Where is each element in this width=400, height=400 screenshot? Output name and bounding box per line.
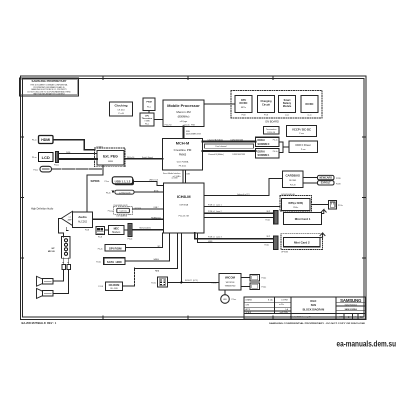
svg-text:ICH BGA: ICH BGA — [179, 204, 188, 207]
wire PWM to thermistor — [148, 110, 150, 113]
svg-text:uClocks FSB: uClocks FSB — [183, 125, 195, 127]
svg-text:Audio: Audio — [78, 215, 87, 219]
LVDS connector bar — [54, 152, 59, 167]
svg-text:Ext. PEG: Ext. PEG — [103, 155, 118, 159]
CD-ROM — [98, 282, 122, 291]
svg-text:Thermistor: Thermistor — [142, 117, 153, 120]
EC aux connector 1 — [250, 274, 266, 281]
svg-text:ɰ Bluetooth: ɰ Bluetooth — [119, 191, 131, 194]
svg-text:Mini Card 2: Mini Card 2 — [294, 241, 310, 245]
svg-text:SIO/LPC (LPC): SIO/LPC (LPC) — [185, 280, 198, 282]
cardbus controller — [283, 171, 304, 187]
svg-text:Modem: Modem — [112, 231, 120, 234]
svg-text:P2-4x: P2-4x — [262, 278, 267, 280]
svg-text:x4 1GB: x4 1GB — [172, 177, 179, 179]
svg-text:ELECTRONICS: ELECTRONICS — [345, 304, 358, 306]
svg-text:S/PDIF.: S/PDIF. — [91, 179, 101, 183]
svg-text:Dual channel: Dual channel — [215, 146, 227, 148]
svg-text:SAMSUNG: SAMSUNG — [340, 298, 362, 303]
audio codec ALC262 — [73, 212, 93, 232]
DDR channel A bus — [203, 141, 256, 143]
wires ICH to minicard2 — [195, 233, 274, 239]
svg-text:Merom 4M: Merom 4M — [176, 110, 191, 114]
power section dashed box — [231, 91, 322, 119]
svg-text:xxxF-D/Nx: xxxF-D/Nx — [280, 312, 288, 314]
wire WICOM to LED — [224, 290, 226, 295]
MDC connector icon — [96, 227, 105, 239]
svg-text:P3-xx: P3-xx — [33, 170, 38, 172]
svg-text:PAGE: PAGE — [340, 316, 346, 319]
wire modem to RJ11 — [124, 229, 128, 231]
svg-text:DDR2 667/533: DDR2 667/533 — [233, 154, 246, 156]
minicard1 edge connector — [274, 211, 278, 225]
camera module — [108, 208, 130, 217]
wire USB to ICH — [134, 182, 164, 186]
svg-text:DILO: DILO — [310, 300, 316, 303]
svg-text:Switch Signal: Switch Signal — [142, 156, 153, 159]
PWM sensor — [143, 98, 155, 110]
svg-text:DDR-II: DDR-II — [258, 139, 266, 142]
svg-text:DDR2 667/533: DDR2 667/533 — [231, 140, 244, 142]
wire SPI ROM to ICH — [126, 233, 163, 248]
wire LAN to RJ45 — [312, 204, 329, 206]
audio amplifier — [61, 211, 72, 225]
svg-text:CD-ROM: CD-ROM — [109, 283, 120, 287]
DDR II power — [289, 141, 318, 153]
svg-text:P4-x: P4-x — [145, 123, 149, 125]
wire SODIMM to DDR II power — [279, 142, 289, 152]
svg-text:OD- DVD: OD- DVD — [110, 288, 119, 290]
svg-text:DDR II Power: DDR II Power — [296, 144, 311, 147]
svg-text:ALC262: ALC262 — [78, 221, 88, 224]
svg-text:Module: Module — [283, 105, 292, 108]
RJ11 connector bar — [128, 224, 133, 241]
svg-text:PCIE x1 Lane 1: PCIE x1 Lane 1 — [208, 204, 222, 206]
svg-text:P2-4x: P2-4x — [128, 238, 133, 240]
wire Ext PEG spdif to audio — [87, 165, 103, 212]
wire LVDS bus dashed — [59, 158, 97, 160]
SPI ROM — [98, 245, 126, 252]
svg-text:LVTMDS: LVTMDS — [96, 146, 104, 148]
svg-text:x.x: x.x — [68, 217, 70, 219]
svg-text:P4-1x: P4-1x — [273, 140, 278, 142]
wire audio HDA to ICH — [93, 218, 164, 220]
CPU DC/DC regulator — [235, 96, 252, 117]
svg-text:BT/SL: BT/SL — [154, 190, 159, 192]
newcard slot 1 — [318, 175, 342, 179]
svg-text:P3-xx: P3-xx — [32, 157, 37, 159]
svg-text:Circuit: Circuit — [262, 103, 270, 106]
svg-text:BA-20D MUTIBLE.D REV : 1: BA-20D MUTIBLE.D REV : 1 — [22, 321, 57, 325]
svg-text:SODIMM 1: SODIMM 1 — [258, 154, 270, 157]
svg-text:NEWCARD: NEWCARD — [319, 177, 332, 180]
wire ICH to minicard1 pcie — [204, 212, 274, 214]
svg-text:SAM KOREA: SAM KOREA — [345, 308, 358, 311]
svg-text:P4-x: P4-x — [147, 107, 151, 109]
svg-text:SPI ROM: SPI ROM — [109, 246, 122, 250]
svg-text:ICH8-M: ICH8-M — [177, 194, 191, 199]
svg-text:P21-B: P21-B — [290, 184, 296, 186]
proprietary notice box — [20, 78, 79, 96]
mini card 1 — [284, 212, 322, 224]
samsung logo — [340, 298, 364, 319]
svg-text:Crestline PM: Crestline PM — [174, 148, 192, 152]
svg-text:MIC-IN: MIC-IN — [48, 251, 55, 253]
wire CRT dashed — [52, 168, 103, 170]
wire HDMI to Ext PEG — [53, 140, 95, 150]
svg-text:1/3 PMT: 1/3 PMT — [281, 300, 289, 302]
svg-text:Channel A (64bits): Channel A (64bits) — [208, 139, 224, 142]
svg-text:P2-4x: P2-4x — [265, 245, 270, 247]
svg-text:P2-4x: P2-4x — [96, 262, 101, 264]
LED indicator — [221, 295, 236, 304]
termination network — [264, 127, 280, 135]
wire Ext PEG to MCH — [124, 158, 163, 160]
LAN dashed box — [280, 196, 312, 212]
svg-text:PCIE x1 Lane 2: PCIE x1 Lane 2 — [208, 211, 222, 213]
svg-text:SAMSUNG PROPRIETARY: SAMSUNG PROPRIETARY — [32, 79, 67, 83]
svg-text:PCIE x1 Lane 3: PCIE x1 Lane 3 — [208, 237, 222, 239]
wire SATA to ICH — [125, 233, 170, 261]
wire speaker right — [53, 270, 69, 294]
svg-text:MCH-M: MCH-M — [176, 141, 189, 146]
svg-text:SODIMM 0: SODIMM 0 — [258, 143, 270, 146]
svg-text:P x-B: P x-B — [118, 113, 124, 115]
svg-text:Channel B (64bits): Channel B (64bits) — [208, 153, 224, 156]
svg-text:(800MHz): (800MHz) — [178, 115, 190, 119]
svg-text:USB 7: USB 7 — [154, 207, 159, 209]
HDMI connector — [32, 136, 53, 144]
CRT VGA connector — [33, 166, 51, 172]
svg-text:Direct Media Interface: Direct Media Interface — [163, 172, 181, 175]
svg-text:PEG x16: PEG x16 — [127, 157, 134, 159]
svg-text:P2-5x: P2-5x — [151, 282, 156, 284]
wires WICOM to aux connectors — [241, 278, 250, 287]
svg-text:P4-1x: P4-1x — [273, 151, 278, 153]
svg-text:ea-manuals.dem.su: ea-manuals.dem.su — [337, 339, 397, 349]
svg-text:Clocking: Clocking — [114, 104, 127, 108]
wire speaker left — [53, 270, 64, 282]
wire CPU to CPU DC/DC — [204, 103, 235, 105]
wire bluetooth to ICH — [134, 191, 163, 193]
svg-text:400/533MHz BTX: 400/533MHz BTX — [186, 134, 202, 136]
title block small texts — [246, 298, 289, 314]
svg-text:SAMSUNG CONFIDENTIAL PROPRIETA: SAMSUNG CONFIDENTIAL PROPRIETARY - DO NO… — [269, 322, 366, 325]
newcard slot 2 — [318, 181, 342, 186]
frame zone ticks left — [20, 137, 23, 258]
bluetooth module — [106, 190, 134, 194]
svg-text:P-2-B: P-2-B — [98, 286, 103, 288]
border frame outer — [20, 76, 366, 319]
wire CD-ROM PATA to ICH — [123, 268, 135, 286]
svg-text:WICOM: WICOM — [225, 276, 236, 280]
wire camera to ICH — [133, 208, 164, 210]
title block — [244, 297, 366, 319]
svg-text:LED: LED — [223, 299, 227, 301]
svg-text:Mobile Processor: Mobile Processor — [167, 103, 200, 108]
svg-text:Camera: Camera — [119, 210, 127, 213]
CPU thermistor — [140, 113, 154, 126]
DDR-II SODIMM 0 connector — [256, 137, 280, 146]
svg-text:SATA 0: SATA 0 — [154, 258, 160, 261]
svg-text:P9,10,11: P9,10,11 — [179, 166, 186, 168]
audio jack strip — [62, 237, 71, 259]
camera dashed option box — [114, 206, 133, 214]
svg-text:DMI: DMI — [187, 174, 191, 176]
svg-text:APPD: APPD — [246, 308, 251, 311]
svg-text:BLOCK DIAGRAM: BLOCK DIAGRAM — [303, 309, 325, 312]
svg-text:xx: xx — [67, 262, 69, 264]
USB ports block — [112, 177, 134, 186]
svg-text:P8-4x: P8-4x — [293, 207, 298, 209]
LAN controller — [282, 199, 311, 211]
svg-text:P xxx: P xxx — [299, 133, 304, 135]
svg-text:OPTION: OPTION — [281, 252, 289, 254]
svg-text:DDR-II: DDR-II — [258, 150, 266, 153]
southbridge U2 ICH8-M — [164, 183, 205, 233]
svg-text:P4,14,16: P4,14,16 — [267, 132, 275, 134]
FSB bus CPU to MCH — [183, 127, 185, 139]
svg-text:DC/DC: DC/DC — [240, 102, 248, 105]
CPU U0 Mobile Processor — [163, 100, 204, 127]
svg-text:xx: xx — [62, 262, 64, 264]
svg-text:SCALE: SCALE — [246, 311, 252, 314]
svg-text:LCD: LCD — [42, 155, 50, 160]
svg-text:Termination: Termination — [266, 128, 276, 131]
wires cardbus to newcard — [303, 178, 318, 183]
svg-text:High Definition Audio: High Definition Audio — [31, 207, 54, 210]
wire MDC to ICH — [132, 229, 164, 231]
svg-text:Galaxy 4 in PCI: Galaxy 4 in PCI — [237, 194, 250, 196]
svg-text:SGN: SGN — [311, 304, 317, 307]
clocking U-CLK — [110, 102, 133, 116]
svg-text:EXP/SLT: EXP/SLT — [321, 182, 331, 185]
coupling capacitors — [62, 258, 70, 270]
smart battery module — [279, 96, 296, 117]
svg-text:P3 xx: P3 xx — [105, 181, 110, 183]
svg-text:P2-x ▶: P2-x ▶ — [108, 209, 114, 212]
svg-text:DC/DC: DC/DC — [306, 103, 314, 106]
svg-text:PWM: PWM — [146, 102, 152, 104]
DMI bus MCH to ICH — [183, 170, 186, 183]
wire ICH to minicard1 usb — [204, 217, 274, 219]
LPC bus wire — [168, 281, 220, 283]
svg-text:SATA HDD: SATA HDD — [107, 260, 122, 264]
dual channel label box — [205, 144, 254, 148]
svg-text:PARTY AS NECESSARY BY CONTENT: PARTY AS NECESSARY BY CONTENT — [33, 93, 65, 96]
wire LVDS thin — [59, 153, 97, 155]
svg-text:xx W x: xx W x — [279, 304, 284, 306]
wire amp to jacks — [59, 218, 64, 237]
DC/DC converter — [301, 96, 318, 117]
svg-text:USB1: USB1 — [208, 241, 212, 243]
svg-text:uFCpga: uFCpga — [180, 121, 188, 123]
minicard2 antenna — [320, 233, 325, 237]
mini card 2 — [284, 237, 321, 246]
svg-text:CARDBUS: CARDBUS — [285, 174, 300, 178]
svg-text:P12-16 /18: P12-16 /18 — [179, 216, 190, 218]
RJ45 jack — [329, 200, 343, 209]
svg-text:CK 410: CK 410 — [117, 109, 125, 111]
speaker left — [37, 276, 54, 286]
svg-text:P5,6,7,8: P5,6,7,8 — [165, 125, 172, 127]
svg-text:P2xM USB2.0/ULPI: P2xM USB2.0/ULPI — [114, 205, 129, 207]
charging circuit — [258, 96, 275, 117]
svg-text:Umm FCBGA: Umm FCBGA — [177, 160, 189, 163]
svg-text:xx-xx: xx-xx — [307, 114, 311, 116]
svg-text:RIC865: RIC865 — [289, 180, 297, 182]
svg-text:HDA(Azalia): HDA(Azalia) — [151, 216, 161, 219]
svg-text:DRAWN: DRAWN — [246, 298, 253, 301]
wire thermistor to CPU — [154, 119, 163, 121]
svg-text:HDMI: HDMI — [41, 138, 50, 142]
svg-text:WPC8768: WPC8768 — [226, 282, 235, 284]
DDR-II SODIMM 1 connector — [256, 149, 280, 158]
svg-text:P xxx: P xxx — [301, 149, 306, 151]
VCCP DC-DC — [287, 126, 317, 137]
frame zone ticks bottom — [103, 316, 273, 319]
svg-text:8871x: 8871x — [241, 107, 246, 109]
minicard2 dashed option box — [281, 234, 323, 250]
border frame inner — [22, 78, 364, 317]
northbridge U1 MCH-M — [163, 138, 203, 170]
svg-text:8055(or 8056): 8055(or 8056) — [288, 203, 303, 205]
svg-text:P2-xx: P2-xx — [232, 299, 237, 301]
graphics Ext PEG dashed option box — [95, 148, 126, 167]
frame zone ticks top — [103, 76, 273, 79]
DDR channel B bus — [203, 150, 256, 152]
junction LPC — [180, 281, 182, 283]
svg-text:P2-4x: P2-4x — [262, 286, 267, 288]
svg-text:P3-4x: P3-4x — [106, 193, 111, 195]
svg-text:xx-xx: xx-xx — [285, 114, 289, 116]
svg-text:MXM: MXM — [108, 161, 113, 163]
title block center — [290, 300, 324, 319]
graphics Ext PEG — [97, 151, 124, 166]
LPC debug connector — [151, 277, 167, 287]
svg-text:Date 5, 2007 January 19: Date 5, 2007 January 19 — [290, 316, 311, 319]
minicard2 edge connector — [274, 236, 278, 249]
wire ICH to cardbus PCI — [204, 179, 283, 196]
svg-text:P2-9x: P2-9x — [338, 205, 343, 207]
frame zone ticks right — [363, 137, 366, 258]
svg-text:VCCP / DC-DC: VCCP / DC-DC — [292, 127, 311, 131]
svg-text:ON BOARD: ON BOARD — [265, 119, 279, 123]
SATA HDD — [96, 258, 125, 265]
svg-text:USB 1.1,1.2: USB 1.1,1.2 — [115, 179, 131, 183]
svg-text:Mini Card 1: Mini Card 1 — [295, 217, 311, 221]
svg-text:/ SNS: / SNS — [144, 121, 150, 123]
LPC vertical from ICH — [180, 233, 182, 283]
speaker right — [37, 289, 54, 299]
svg-text:P-2-xx: P-2-xx — [211, 282, 216, 284]
svg-text:MDC(modem): MDC(modem) — [140, 227, 152, 229]
wire ICH to LAN — [204, 206, 280, 208]
svg-text:P3xxx: P3xxx — [54, 164, 59, 166]
svg-text:P2-41: P2-41 — [266, 220, 271, 222]
minicard1 antenna — [321, 210, 326, 214]
LCD connector — [32, 153, 53, 162]
EC aux connector 2 — [250, 283, 266, 290]
svg-text:TMKB/LTMD: TMKB/LTMD — [225, 286, 236, 288]
wire MDC icon to modem — [105, 229, 109, 231]
svg-text:P2-4x: P2-4x — [98, 248, 103, 250]
svg-text:P3-xx: P3-xx — [32, 140, 37, 142]
svg-text:PM965: PM965 — [179, 155, 187, 157]
EC WICOM — [211, 274, 241, 290]
MDC modem — [109, 226, 125, 235]
svg-text:USB 2.0 x3: USB 2.0 x3 — [149, 180, 158, 182]
